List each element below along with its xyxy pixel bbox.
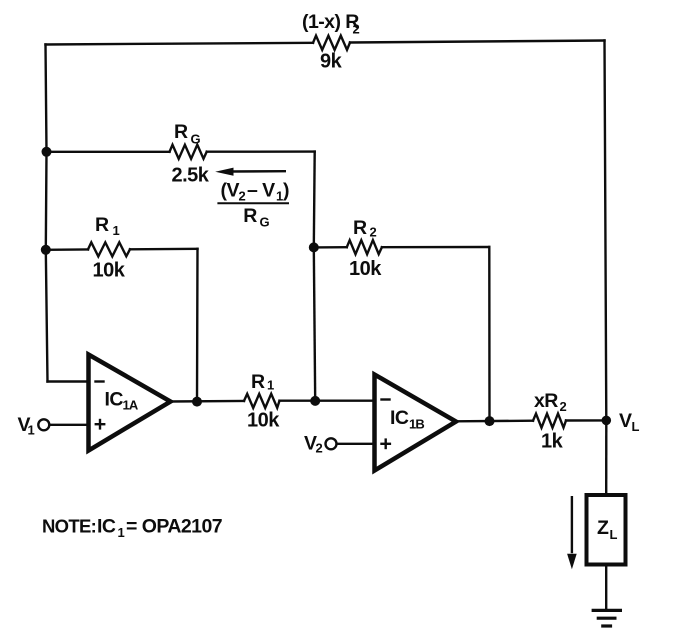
ground xyxy=(593,610,620,626)
resistor xR2 zigzag xyxy=(533,414,566,428)
svg-text:L: L xyxy=(610,527,618,542)
label 2.5k xyxy=(172,165,210,187)
svg-text:xR: xR xyxy=(534,390,558,412)
svg-text:9k: 9k xyxy=(320,51,343,73)
wire: V2 to IC1B plus input xyxy=(337,443,375,445)
svg-text:1A: 1A xyxy=(123,398,139,413)
wire: ZL to ground xyxy=(605,565,607,610)
IC1B minus sign xyxy=(382,398,390,400)
label IC1A xyxy=(105,389,139,413)
resistor (1-x)R2 zigzag xyxy=(313,36,350,50)
label R1 xyxy=(95,214,120,238)
svg-text:V: V xyxy=(619,410,632,432)
svg-text:G: G xyxy=(191,132,201,147)
svg-text:10k: 10k xyxy=(247,409,280,431)
load ZL box xyxy=(587,495,626,565)
svg-text:2: 2 xyxy=(560,399,567,414)
label V2 xyxy=(304,433,323,456)
svg-text:Z: Z xyxy=(597,517,609,539)
svg-text:2.5k: 2.5k xyxy=(172,165,210,187)
wire: IC1B output xyxy=(456,420,533,423)
svg-text:2: 2 xyxy=(316,441,323,456)
fraction bar xyxy=(218,202,288,204)
svg-text:(V: (V xyxy=(221,180,240,202)
svg-text:1: 1 xyxy=(113,223,120,238)
node: R2 junction xyxy=(309,242,319,252)
svg-text:R: R xyxy=(174,121,188,143)
wire: R1 mid to IC1B inverting input xyxy=(280,400,375,402)
wire: left rail vertical xyxy=(46,45,48,382)
resistor RG zigzag xyxy=(170,145,207,159)
label ZL xyxy=(597,517,618,542)
wire: V1 to IC1A plus input xyxy=(50,424,89,426)
svg-text:– V: – V xyxy=(247,180,275,202)
svg-text:2: 2 xyxy=(370,225,377,240)
wire: right rail vertical xyxy=(605,41,607,421)
svg-text:IC: IC xyxy=(97,516,116,538)
svg-text:= OPA2107: = OPA2107 xyxy=(126,516,222,538)
label 10k xyxy=(93,260,126,282)
svg-text:R: R xyxy=(251,371,265,393)
svg-text:G: G xyxy=(260,215,270,230)
svg-text:IC: IC xyxy=(390,407,409,429)
resistor R1 mid zigzag xyxy=(244,394,280,408)
wire: IC1A inverting input stub xyxy=(48,380,89,382)
svg-text:1: 1 xyxy=(118,525,125,540)
label 10k mid xyxy=(247,409,280,431)
svg-text:2: 2 xyxy=(353,22,360,37)
svg-text:R: R xyxy=(243,205,257,227)
node: IC1B output junction xyxy=(485,416,495,426)
label R2 xyxy=(353,217,377,240)
node: VL xyxy=(602,416,612,426)
label RG denominator xyxy=(243,205,269,230)
wire: RG to R2 vertical xyxy=(313,152,316,248)
IC1B plus sign xyxy=(382,440,390,448)
wire: RG right segment xyxy=(207,150,315,152)
wire: R2 junction down to mid wire xyxy=(314,247,315,401)
op-amp IC1A triangle xyxy=(89,355,171,451)
label xR2 xyxy=(534,390,567,414)
label VL xyxy=(619,410,640,434)
svg-text:L: L xyxy=(632,419,640,434)
wire: top feedback left segment xyxy=(46,43,314,45)
svg-text:R: R xyxy=(95,214,109,236)
wire: R2 feedback down to IC1B output xyxy=(488,247,491,421)
arrow: load current direction xyxy=(567,497,577,569)
svg-text:): ) xyxy=(283,180,289,202)
svg-text:NOTE:: NOTE: xyxy=(42,516,96,537)
svg-text:2: 2 xyxy=(239,189,246,204)
label 9k xyxy=(320,51,343,73)
svg-text:10k: 10k xyxy=(349,258,382,280)
label R1 mid xyxy=(251,371,274,393)
node: RG junction on left rail xyxy=(42,147,52,157)
resistor R1 feedback zigzag xyxy=(88,242,130,256)
label 1k xyxy=(541,431,564,453)
label (1-x)R2 xyxy=(302,11,360,37)
wire: RG left segment xyxy=(47,151,170,153)
wire: R1 feedback left segment xyxy=(46,248,88,251)
svg-text:1: 1 xyxy=(276,189,283,204)
label 10k xyxy=(349,258,382,280)
svg-text:1: 1 xyxy=(267,378,274,393)
wire: IC1A output xyxy=(171,400,245,403)
svg-text:1k: 1k xyxy=(541,431,564,453)
svg-text:10k: 10k xyxy=(93,260,126,282)
IC1A minus sign xyxy=(96,380,104,382)
note text xyxy=(42,516,222,541)
label IC1B xyxy=(390,407,424,432)
terminal V1 xyxy=(38,419,49,430)
op-amp IC1B triangle xyxy=(375,375,457,471)
svg-text:R: R xyxy=(353,217,367,239)
resistor R2 feedback zigzag xyxy=(347,240,382,254)
IC1A plus sign xyxy=(96,420,104,428)
node: R1 junction on left rail xyxy=(41,245,51,255)
label (V2-V1) numerator xyxy=(221,180,290,204)
wire: xR2 to VL node xyxy=(566,419,606,422)
svg-text:IC: IC xyxy=(105,389,124,411)
wire: VL down to ZL xyxy=(605,420,607,494)
wire: R2 feedback right segment xyxy=(382,246,489,249)
node: IC1A output junction xyxy=(192,397,202,407)
node: junction at IC1B inverting input xyxy=(310,396,320,406)
svg-text:(1-x) R: (1-x) R xyxy=(302,11,359,33)
terminal V2 xyxy=(326,438,337,449)
svg-text:1: 1 xyxy=(28,423,35,438)
wire: R1 feedback down to IC1A output xyxy=(196,249,199,402)
label V1 xyxy=(18,414,35,438)
svg-text:1B: 1B xyxy=(409,417,424,432)
label RG xyxy=(174,121,201,147)
wire: R2 feedback left segment xyxy=(314,246,347,249)
arrow: current direction (V2-V1)/RG xyxy=(215,168,285,176)
wire: R1 feedback right segment xyxy=(130,248,198,251)
wire: top feedback right segment xyxy=(350,41,605,43)
